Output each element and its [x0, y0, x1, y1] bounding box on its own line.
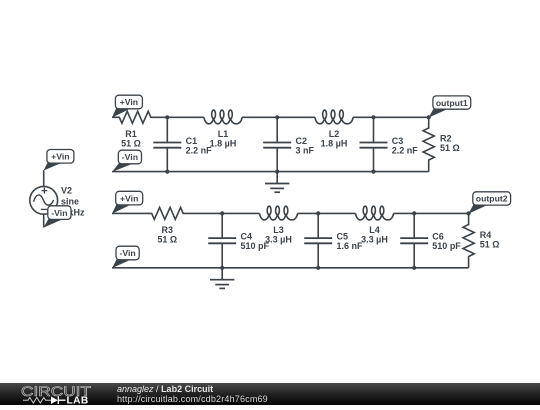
svg-text:output2: output2: [476, 194, 508, 204]
svg-text:51 Ω: 51 Ω: [121, 138, 141, 148]
node junction L3-C5-L4 top: [316, 211, 320, 215]
inductor L3: [260, 206, 298, 220]
junction C6 bottom: [412, 266, 416, 270]
svg-text:2.2 nF: 2.2 nF: [186, 145, 213, 155]
capacitor C5: [304, 213, 332, 267]
wire bottom circuit bottom rail: [112, 267, 469, 269]
flag output1: [429, 96, 471, 118]
flag +Vin bottom circuit input: [112, 191, 143, 213]
footer bar: [0, 383, 540, 405]
svg-text:V2: V2: [61, 185, 72, 195]
label L4 value: [361, 225, 388, 244]
wire C4 to L3: [222, 212, 259, 214]
wire C3 to output1 node: [374, 116, 429, 118]
capacitor C2: [263, 117, 291, 171]
flag +Vin at V2 positive: [44, 150, 74, 171]
svg-text:-Vin: -Vin: [51, 208, 67, 218]
resistor R3: [112, 207, 222, 219]
svg-text:-Vin: -Vin: [122, 152, 138, 162]
CircuitLab logo: [21, 384, 96, 404]
label R2 value: [440, 134, 460, 154]
flag -Vin top circuit rail: [112, 150, 141, 172]
resistor R2: [423, 117, 434, 171]
flag output2: [469, 192, 511, 214]
capacitor C1: [153, 117, 181, 171]
junction C3 bottom: [371, 170, 375, 174]
flag -Vin bottom circuit rail: [112, 246, 139, 268]
wire L4 to C6: [394, 212, 415, 214]
node output1: [427, 115, 431, 119]
svg-text:1.8 µH: 1.8 µH: [210, 138, 237, 148]
svg-text:sine: sine: [61, 196, 79, 206]
wire L1 to C2: [242, 116, 277, 118]
wire V2 positive lead: [43, 170, 45, 186]
svg-text:+Vin: +Vin: [51, 152, 69, 162]
svg-text:1.6 nF: 1.6 nF: [337, 241, 364, 251]
wire C5 to L4: [318, 212, 355, 214]
junction C2 bottom ground: [275, 170, 279, 174]
svg-text:output1: output1: [436, 98, 468, 108]
svg-text:2.2 nF: 2.2 nF: [392, 145, 419, 155]
junction C1 bottom: [165, 170, 169, 174]
node junction R3-C4 top: [220, 211, 224, 215]
label C4 value: [241, 232, 270, 251]
node junction R1-C1 top: [165, 115, 169, 119]
wire C1 to L1: [167, 116, 204, 118]
inductor L1: [204, 110, 242, 124]
wire top circuit bottom rail: [112, 171, 429, 173]
wire V2 negative lead: [43, 214, 45, 227]
junction C5 bottom: [316, 266, 320, 270]
svg-text:+Vin: +Vin: [120, 193, 138, 203]
label R3 value: [157, 225, 177, 244]
ground top circuit: [265, 172, 289, 193]
inductor L4: [356, 206, 394, 220]
label C1 value: [186, 136, 213, 155]
label L3 value: [265, 225, 292, 244]
label L2 value: [321, 129, 348, 148]
node junction L2-C3 top: [371, 115, 375, 119]
label C2 value: [296, 136, 315, 155]
capacitor C3: [360, 117, 388, 171]
wire C2 to L2: [277, 116, 315, 118]
svg-text:51 Ω: 51 Ω: [480, 240, 500, 250]
ground bottom circuit: [210, 268, 234, 289]
svg-text:51 Ω: 51 Ω: [157, 234, 177, 244]
label V2 value: [61, 185, 85, 217]
svg-text:R4: R4: [480, 230, 492, 240]
svg-text:3.3 µH: 3.3 µH: [265, 234, 292, 244]
footer credit text: [117, 385, 268, 405]
wire L2 to C3: [353, 116, 374, 118]
svg-text:LAB: LAB: [67, 396, 89, 405]
svg-text:1.8 µH: 1.8 µH: [321, 138, 348, 148]
inductor L2: [315, 110, 353, 124]
node output2: [467, 211, 471, 215]
flag +Vin top circuit input: [112, 95, 142, 117]
wire C6 to output2 node: [414, 212, 468, 214]
svg-text:+Vin: +Vin: [120, 97, 138, 107]
capacitor C4: [208, 213, 236, 267]
voltage source V2: [30, 186, 58, 214]
node junction L4-C6 top: [412, 211, 416, 215]
resistor R4: [463, 213, 474, 267]
flag -Vin at V2 negative: [44, 206, 72, 228]
svg-text:R2: R2: [440, 134, 452, 144]
resistor R1: [112, 111, 167, 123]
capacitor C6: [400, 213, 428, 267]
svg-text:51 Ω: 51 Ω: [440, 143, 460, 153]
label C5 value: [337, 232, 364, 251]
junction C4 bottom ground: [220, 266, 224, 270]
wire L3 to C5: [298, 212, 319, 214]
label R1 value: [121, 129, 141, 148]
svg-text:510 pF: 510 pF: [432, 241, 461, 251]
svg-text:3 nF: 3 nF: [296, 145, 315, 155]
node junction L1-C2-L2 top: [275, 115, 279, 119]
label R4 value: [480, 230, 500, 250]
svg-text:3.3 µH: 3.3 µH: [361, 234, 388, 244]
label C3 value: [392, 136, 419, 155]
label L1 value: [210, 129, 237, 148]
svg-text:-Vin: -Vin: [119, 248, 135, 258]
label C6 value: [432, 232, 461, 251]
